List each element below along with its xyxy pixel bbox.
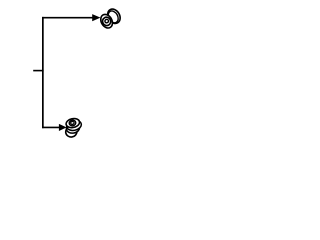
coil spool (bottom): third turn [66, 122, 81, 134]
wire: vertical bus [42, 17, 44, 128]
coil spool (bottom): back turn [65, 126, 78, 138]
coil spool (top): inner turn rim [106, 9, 120, 24]
coil spool (top): front face [98, 12, 114, 30]
arrowhead: bottom branch [59, 124, 67, 131]
wire: bottom branch [42, 126, 60, 128]
coil spool (bottom): second turn [66, 119, 83, 132]
wire: left input stub [33, 70, 43, 72]
coil spool (top): body (back turns) [105, 7, 123, 26]
arrowhead: top branch [92, 14, 100, 21]
wire: top branch [42, 17, 93, 19]
coil spool (bottom): front face [65, 117, 80, 128]
